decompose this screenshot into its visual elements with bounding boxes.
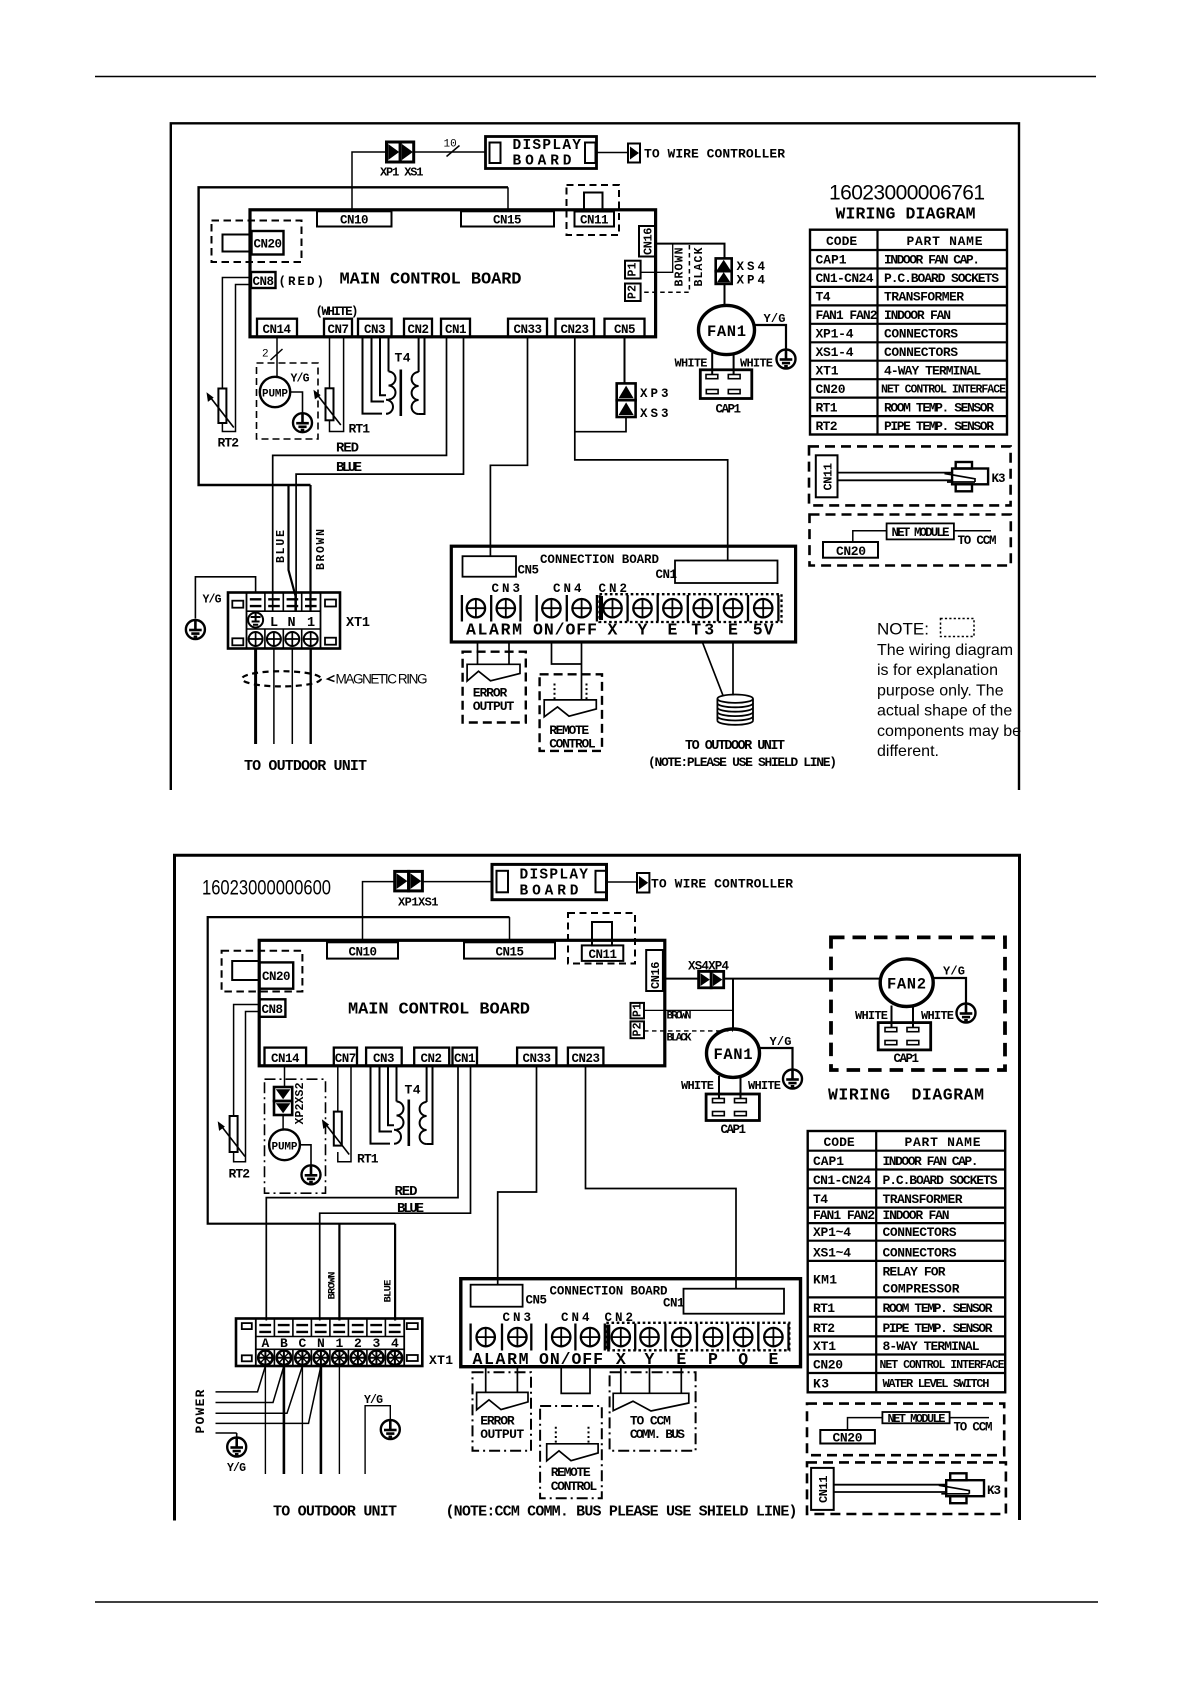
svg-text:TO WIRE CONTROLLER: TO WIRE CONTROLLER: [644, 147, 785, 162]
wire CN16 to XS4XP4 (bottom): [663, 978, 699, 980]
svg-text:XT1: XT1: [816, 364, 839, 379]
sensor RT1: [314, 388, 341, 425]
svg-text:XP1~4: XP1~4: [813, 1225, 851, 1240]
socket P1: [625, 261, 641, 279]
svg-text:RT2: RT2: [218, 436, 240, 451]
svg-text:CN14: CN14: [263, 323, 292, 337]
screw terminals row: [467, 599, 485, 617]
socket P2: [625, 284, 641, 302]
K3 water level switch dashed box (bottom): [807, 1462, 1006, 1514]
wire CN20 to net module: [853, 531, 887, 542]
svg-text:E: E: [667, 621, 677, 640]
svg-text:XP4: XP4: [737, 274, 766, 288]
svg-text:XT1: XT1: [429, 1353, 453, 1368]
ground XT1 left: [186, 620, 205, 639]
wire+ground Y/G mid (bottom): [365, 1406, 390, 1474]
svg-text:is for explanation: is for explanation: [877, 662, 998, 679]
XT1 screws: [249, 632, 263, 646]
wires ALARM to error output: [478, 643, 510, 664]
wires ON/OFF bracket (bottom): [561, 1367, 590, 1394]
wire XS4XP4 to FAN2: [724, 978, 881, 980]
svg-text:CAP1: CAP1: [721, 1123, 747, 1137]
svg-text:ON/OFF: ON/OFF: [533, 621, 597, 640]
svg-text:BROWN: BROWN: [327, 1272, 339, 1300]
socket CN7: [324, 319, 352, 337]
parts table bottom: [808, 1131, 1006, 1392]
svg-text:XS1-4: XS1-4: [816, 345, 854, 360]
main control board U1: [250, 210, 656, 337]
svg-text:CN3: CN3: [503, 1311, 532, 1325]
socket CN20 (net box bottom): [820, 1430, 875, 1444]
svg-text:5V: 5V: [753, 621, 774, 640]
svg-text:(WHITE): (WHITE): [316, 305, 359, 319]
svg-text:TRANSFORMER: TRANSFORMER: [883, 1192, 963, 1207]
socket CN8: [251, 272, 276, 288]
svg-text:RT1: RT1: [816, 400, 838, 415]
wires CN8 to RT2: [222, 278, 251, 389]
svg-text:CN11: CN11: [589, 948, 618, 962]
socket CN5 (connection board): [463, 556, 517, 577]
svg-text:TO CCM: TO CCM: [954, 1421, 993, 1435]
ground pump: [293, 413, 312, 432]
svg-text:XP1XS1: XP1XS1: [398, 896, 439, 910]
socket CN23: [556, 319, 595, 337]
wire CN23 to connection board CN1: [575, 337, 728, 561]
svg-text:CONNECTION BOARD: CONNECTION BOARD: [540, 553, 659, 567]
svg-text:16023000006761: 16023000006761: [829, 182, 985, 205]
svg-text:(NOTE:CCM COMM. BUS PLEASE USE: (NOTE:CCM COMM. BUS PLEASE USE SHIELD LI…: [446, 1504, 798, 1521]
net module dashed box (top): [810, 515, 1011, 566]
svg-text:Y: Y: [638, 621, 648, 640]
IR dotted lines: [555, 684, 587, 701]
wire loop CN15 around board to XT1: [199, 187, 508, 485]
svg-text:INDOOR FAN CAP.: INDOOR FAN CAP.: [884, 253, 980, 268]
svg-text:P.C.BOARD SOCKETS: P.C.BOARD SOCKETS: [884, 271, 999, 286]
svg-text:WIRING DIAGRAM: WIRING DIAGRAM: [828, 1086, 984, 1105]
socket CN33: [508, 319, 547, 337]
shield coil to outdoor: [717, 695, 753, 725]
socket CN14: [257, 319, 297, 337]
svg-text:CONTROL: CONTROL: [549, 737, 596, 752]
svg-text:OUTPUT: OUTPUT: [480, 1427, 524, 1442]
svg-text:CAP1: CAP1: [816, 253, 847, 268]
svg-text:T4: T4: [395, 351, 411, 366]
svg-text:XS4: XS4: [737, 260, 766, 274]
wire drop to XT1 col1: [338, 1224, 340, 1321]
terminal XT1 8-way (bottom): [236, 1319, 422, 1367]
wire CN33 to connection board CN5 (bottom): [498, 1066, 537, 1285]
FAN2 dashed box: [831, 937, 1005, 1070]
socket CN7 (bottom): [334, 1048, 357, 1066]
wire CN33 to connection board CN5: [490, 337, 527, 556]
pump dashed box: [257, 363, 319, 439]
svg-text:REMOTE: REMOTE: [551, 1465, 591, 1480]
svg-text:CN16: CN16: [649, 962, 663, 990]
svg-text:CODE: CODE: [824, 1135, 855, 1150]
svg-text:K3: K3: [813, 1376, 829, 1391]
svg-text:CONNECTORS: CONNECTORS: [884, 345, 958, 360]
svg-text:CN8: CN8: [262, 1003, 284, 1017]
svg-text:CN7: CN7: [335, 1052, 357, 1066]
wire net module to CCM (bottom): [950, 1417, 989, 1419]
svg-text:FAN1 FAN2: FAN1 FAN2: [813, 1208, 875, 1223]
wire BROWN P1 (bottom): [644, 1009, 733, 1011]
svg-text:XP2XS2: XP2XS2: [294, 1082, 307, 1124]
svg-text:The wiring diagram: The wiring diagram: [877, 642, 1013, 659]
svg-text:POWER: POWER: [193, 1389, 208, 1433]
svg-text:ROOM TEMP. SENSOR: ROOM TEMP. SENSOR: [884, 400, 994, 415]
svg-text:XP3: XP3: [640, 387, 669, 401]
socket CN8 (bottom): [259, 999, 285, 1017]
capacitor CAP1 (bottom FAN1): [706, 1094, 759, 1121]
wire CN15 riser (bottom): [509, 917, 511, 942]
svg-text:CODE: CODE: [826, 234, 857, 249]
connector arrow to wire controller: [628, 144, 640, 163]
terminal XT1: [228, 593, 340, 649]
connector XS4XP4 (bottom): [699, 971, 724, 987]
fan motor FAN2: [880, 959, 933, 1007]
svg-text:CN20: CN20: [816, 382, 846, 397]
socket CN23 (bottom): [568, 1048, 604, 1066]
svg-text:CN20: CN20: [813, 1358, 843, 1373]
svg-text:CN5: CN5: [526, 1294, 548, 1308]
socket P1 (bottom): [631, 1003, 645, 1019]
svg-text:T4: T4: [405, 1083, 421, 1098]
svg-text:CN20: CN20: [254, 238, 283, 252]
svg-text:NET MODULE: NET MODULE: [888, 1412, 946, 1426]
socket CN2: [404, 319, 432, 337]
cable CN11 to K3 (bottom): [834, 1485, 946, 1492]
connection board: [451, 546, 795, 642]
wire drop to XT1 col4: [394, 1224, 396, 1321]
fan motor FAN1: [699, 305, 755, 354]
svg-text:BLACK: BLACK: [667, 1033, 692, 1045]
connector XP1XS1: [395, 871, 423, 891]
wire Y/G FAN2 to ground: [933, 978, 966, 1004]
svg-text:CN11: CN11: [580, 214, 609, 228]
ground FAN1: [777, 350, 796, 369]
wire display board to wire controller arrow: [597, 152, 629, 154]
sensor RT2: [207, 389, 234, 428]
svg-text:PIPE TEMP. SENSOR: PIPE TEMP. SENSOR: [883, 1321, 993, 1336]
socket CN15: [461, 211, 554, 226]
svg-text:Y/G: Y/G: [203, 594, 222, 607]
svg-text:X: X: [608, 621, 618, 640]
svg-text:E: E: [728, 621, 738, 640]
wire loop CN15 to XT1 (bottom): [208, 917, 510, 1224]
svg-text:CONNECTORS: CONNECTORS: [883, 1245, 957, 1260]
svg-text:MAIN CONTROL BOARD: MAIN CONTROL BOARD: [348, 1001, 530, 1020]
dashed group CN2 terminals (bottom): [606, 1323, 789, 1351]
svg-text:CN33: CN33: [514, 323, 543, 337]
switch remote control (bottom): [547, 1444, 598, 1461]
svg-text:CN23: CN23: [572, 1052, 601, 1066]
wire drop to XT1 1: [309, 485, 311, 611]
wires XT1 to outdoor unit: [254, 649, 257, 745]
earth mark in XT1: [248, 613, 263, 628]
bottom diagram frame: [175, 855, 1020, 1520]
socket P2 (bottom): [631, 1021, 645, 1038]
net interface CN20 dashed (bottom): [222, 951, 303, 992]
svg-text:CN15: CN15: [493, 214, 522, 228]
main control board (bottom): [259, 940, 665, 1066]
svg-text:TO OUTDOOR UNIT: TO OUTDOOR UNIT: [244, 758, 367, 775]
error output dashed box: [463, 652, 526, 723]
svg-text:CN4: CN4: [553, 582, 582, 596]
wire pump to ground (bottom): [300, 1145, 311, 1166]
svg-text:COMPRESSOR: COMPRESSOR: [883, 1282, 960, 1297]
svg-text:Y/G: Y/G: [943, 965, 965, 979]
svg-text:NET CONTROL INTERFACE: NET CONTROL INTERFACE: [881, 383, 1006, 396]
wire Y/G to XT1: [195, 577, 255, 619]
svg-text:RED: RED: [336, 441, 359, 457]
parts table top: [810, 230, 1007, 435]
svg-text:actual shape of the: actual shape of the: [877, 703, 1012, 720]
socket CN5: [605, 319, 645, 337]
svg-text:CN14: CN14: [271, 1052, 300, 1066]
svg-text:P1: P1: [627, 262, 640, 276]
svg-text:MAIN CONTROL BOARD: MAIN CONTROL BOARD: [340, 271, 522, 290]
svg-text:X: X: [616, 1350, 626, 1369]
svg-text:CN1: CN1: [454, 1052, 476, 1066]
switch remote control: [544, 700, 596, 717]
svg-text:CN1-CN24: CN1-CN24: [813, 1173, 871, 1188]
svg-text:E: E: [768, 1350, 778, 1369]
svg-text:Y/G: Y/G: [227, 1462, 246, 1475]
svg-text:PART NAME: PART NAME: [907, 234, 983, 249]
remote control dashed box: [540, 674, 602, 751]
wire XP1XS1 to display board: [423, 881, 492, 883]
svg-text:ALARM: ALARM: [473, 1350, 529, 1369]
svg-text:P2: P2: [632, 1022, 645, 1036]
wire CN15 riser: [507, 187, 509, 212]
svg-text:FAN1 FAN2: FAN1 FAN2: [816, 308, 878, 323]
display board (bottom): [492, 864, 607, 899]
svg-text:BLACK: BLACK: [693, 247, 706, 286]
XT1 slot bars (bottom): [259, 1325, 400, 1333]
socket CN2 (bottom): [414, 1048, 449, 1066]
svg-text:K3: K3: [987, 1484, 1001, 1498]
wire Y/G FAN1 to ground (bottom): [760, 1048, 793, 1070]
socket CN15 (bottom): [464, 942, 555, 958]
svg-text:XP1 XS1: XP1 XS1: [380, 166, 424, 180]
svg-text:CN11: CN11: [822, 463, 836, 491]
svg-text:TO CCM: TO CCM: [958, 534, 997, 548]
socket CN11 dashed (bottom): [568, 913, 635, 964]
svg-text:PIPE TEMP. SENSOR: PIPE TEMP. SENSOR: [884, 419, 994, 434]
svg-text:NET CONTROL INTERFACE: NET CONTROL INTERFACE: [880, 1359, 1005, 1372]
svg-text:CN1-CN24: CN1-CN24: [816, 271, 874, 286]
TO CCM dash-dot box: [610, 1372, 696, 1451]
switch CCM bus: [613, 1393, 689, 1411]
svg-text:ON/OFF: ON/OFF: [539, 1350, 603, 1369]
svg-text:CONNECTION BOARD: CONNECTION BOARD: [550, 1285, 668, 1299]
svg-text:PUMP: PUMP: [262, 389, 288, 401]
pump dash-dot box (bottom): [265, 1079, 326, 1193]
wire CN14 to pump: [276, 337, 278, 377]
svg-text:P2: P2: [627, 285, 640, 299]
svg-text:CN2: CN2: [408, 323, 430, 337]
socket CN5 (connection board bottom): [471, 1285, 523, 1307]
socket CN10 (bottom): [327, 942, 398, 958]
socket CN11 (K3 box bottom): [811, 1468, 834, 1510]
svg-text:Y/G: Y/G: [764, 312, 786, 326]
wires CN7 to RT1: [329, 337, 331, 388]
svg-text:TO WIRE CONTROLLER: TO WIRE CONTROLLER: [651, 877, 793, 892]
wire pump to ground: [290, 392, 302, 414]
wires XT1 to outdoor (bottom): [264, 1366, 266, 1474]
switch error output: [467, 664, 520, 681]
connector XS4 XP4: [716, 258, 732, 284]
svg-text:P.C.BOARD SOCKETS: P.C.BOARD SOCKETS: [883, 1173, 998, 1188]
svg-text:CN16: CN16: [642, 228, 656, 256]
socket CN3 (bottom): [366, 1048, 402, 1066]
svg-text:RT2: RT2: [813, 1321, 835, 1336]
wires T3/E to shield coil: [703, 643, 733, 696]
svg-text:CN20: CN20: [262, 970, 291, 984]
svg-text:COMM. BUS: COMM. BUS: [630, 1427, 685, 1442]
wire drop to XT1 N (jog): [289, 485, 296, 611]
display board U2: [486, 137, 597, 169]
svg-text:CONNECTORS: CONNECTORS: [883, 1225, 957, 1240]
wire+ground Y/G left (bottom): [236, 1433, 238, 1438]
svg-text:FAN1: FAN1: [707, 323, 746, 341]
svg-text:CN1: CN1: [663, 1297, 685, 1311]
connector XP2XS2: [274, 1087, 292, 1115]
svg-text:PART NAME: PART NAME: [905, 1135, 981, 1150]
socket CN11 (K3 box): [816, 455, 838, 497]
svg-text:CN23: CN23: [561, 323, 590, 337]
wire CN5 to XP3: [624, 337, 626, 383]
svg-text:BLUE: BLUE: [383, 1280, 395, 1303]
wire drop to FAN1 (bottom): [732, 979, 734, 1030]
connector XP1 XS1: [387, 142, 414, 162]
net module dashed box (bottom): [807, 1404, 1004, 1456]
XT1 column labels: [261, 1336, 399, 1351]
wire BLACK P2 dashed (bottom): [644, 1030, 733, 1032]
svg-text:INDOOR FAN CAP.: INDOOR FAN CAP.: [883, 1154, 979, 1169]
net interface CN20 dashed: [212, 221, 302, 263]
svg-text:XP1-4: XP1-4: [816, 327, 854, 342]
svg-text:4: 4: [391, 1336, 399, 1351]
svg-text:A: A: [261, 1336, 269, 1351]
svg-text:WATER LEVEL SWITCH: WATER LEVEL SWITCH: [883, 1377, 990, 1391]
svg-text:CN3: CN3: [373, 1052, 395, 1066]
switch error output (bottom): [477, 1392, 528, 1409]
svg-text:CN10: CN10: [340, 214, 369, 228]
page bottom rule: [95, 1601, 1098, 1603]
wire XP1XS1 to display board: [414, 151, 485, 153]
wire CN10 to XP1XS1: [363, 882, 395, 943]
wires CN8 to RT2 (bottom): [234, 1005, 260, 1117]
svg-text:2: 2: [354, 1336, 362, 1351]
svg-text:ALARM: ALARM: [466, 621, 522, 640]
svg-text:PUMP: PUMP: [272, 1141, 298, 1153]
svg-text:components may be: components may be: [877, 723, 1021, 740]
svg-text:CAP1: CAP1: [813, 1154, 844, 1169]
wire BLACK P2 dashed: [641, 245, 690, 292]
wire display to controller arrow: [607, 881, 638, 883]
svg-text:CN2: CN2: [421, 1052, 443, 1066]
svg-text:XT1: XT1: [346, 616, 370, 631]
svg-text:BLUE: BLUE: [275, 530, 288, 563]
socket CN16: [639, 226, 656, 257]
svg-text:BLUE: BLUE: [336, 460, 362, 476]
svg-text:CN20: CN20: [836, 544, 866, 559]
svg-text:16023000000600: 16023000000600: [202, 877, 331, 900]
svg-text:DISPLAY: DISPLAY: [513, 138, 582, 154]
wire BLUE CN1 to XT1 N: [296, 337, 463, 611]
svg-text:KM1: KM1: [813, 1273, 837, 1288]
terminal separators: [462, 595, 597, 622]
svg-text:P1: P1: [632, 1003, 645, 1017]
svg-text:1: 1: [335, 1336, 343, 1351]
wires POWER: [216, 1366, 266, 1392]
svg-text:WHITE: WHITE: [748, 1079, 781, 1093]
socket CN1 (bottom): [453, 1048, 478, 1066]
svg-text:2: 2: [262, 349, 269, 361]
svg-text:CN1: CN1: [445, 323, 467, 337]
socket CN10: [317, 211, 392, 226]
remote control dash-dot box (bottom): [540, 1406, 602, 1498]
switch K3 connector (bottom): [939, 1473, 984, 1503]
svg-text:Q: Q: [738, 1350, 748, 1369]
K3 water level switch dashed box (top): [809, 446, 1011, 505]
svg-text:N: N: [288, 616, 296, 631]
wire RED CN1 to XT1 A: [266, 1066, 458, 1321]
svg-text:(NOTE:PLEASE USE SHIELD LINE): (NOTE:PLEASE USE SHIELD LINE): [648, 755, 837, 770]
wire CN23 to connection board CN1 (bottom): [586, 1066, 737, 1289]
terminal separators (bottom): [471, 1324, 605, 1351]
wires CN7 to RT1 (bottom): [337, 1066, 339, 1112]
svg-text:N: N: [317, 1336, 325, 1351]
svg-text:CN1: CN1: [656, 568, 678, 582]
wire CN14 to pump (bottom): [284, 1066, 286, 1088]
page top rule: [95, 76, 1096, 78]
net module box (bottom): [882, 1412, 949, 1423]
wires FAN1 to CAP1: [712, 353, 733, 375]
wire CN16 to XS4: [656, 244, 725, 259]
socket CN16 (bottom): [646, 950, 663, 991]
svg-text:CN7: CN7: [328, 323, 350, 337]
socket CN33 (bottom): [517, 1048, 556, 1066]
wire XP4 to FAN1: [724, 284, 726, 306]
wires X/Y/E to CCM bus (bottom): [621, 1367, 682, 1394]
svg-text:(RED): (RED): [279, 275, 325, 289]
wire BROWN P1: [641, 244, 673, 273]
svg-text:CONTROL: CONTROL: [551, 1479, 598, 1494]
svg-text:MAGNETIC RING: MAGNETIC RING: [336, 672, 428, 687]
fan motor FAN1 (bottom): [707, 1029, 760, 1077]
svg-text:purpose only. The: purpose only. The: [877, 682, 1004, 699]
svg-text:RELAY FOR: RELAY FOR: [883, 1265, 946, 1280]
XT1 screws (bottom): [258, 1351, 272, 1365]
net module box: [887, 523, 954, 539]
svg-text:1: 1: [307, 616, 315, 631]
svg-text:TO OUTDOOR UNIT: TO OUTDOOR UNIT: [273, 1504, 397, 1521]
svg-text:CN5: CN5: [614, 323, 636, 337]
socket CN11 dashed: [567, 185, 620, 235]
svg-text:CN20: CN20: [833, 1431, 863, 1446]
switch K3 connector: [945, 462, 989, 491]
svg-text:BROWN: BROWN: [315, 529, 328, 570]
svg-text:Y/G: Y/G: [291, 373, 310, 386]
svg-text:Y/G: Y/G: [770, 1035, 792, 1049]
wires FAN1 to CAP1 (bottom): [719, 1076, 741, 1099]
svg-text:NET MODULE: NET MODULE: [892, 526, 950, 540]
svg-text:ROOM TEMP. SENSOR: ROOM TEMP. SENSOR: [883, 1301, 993, 1316]
wire RED CN1 to XT1 L: [273, 337, 447, 611]
